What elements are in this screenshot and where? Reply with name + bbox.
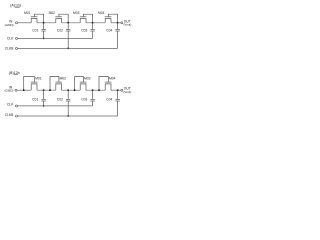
svg-text:C01: C01: [32, 28, 38, 32]
transistor M02 (panel A): [55, 14, 68, 23]
wire CLK rail (panel A): [18, 37, 93, 39]
wire: M03 to M04 (panel B): [86, 89, 105, 91]
transistor M03 (panel A): [80, 14, 93, 23]
terminal CLK circle (panel B): [16, 105, 18, 107]
wire: M04 to OUT (panel B): [111, 89, 121, 91]
figure label (A) 12a: [10, 3, 21, 7]
transistor M03 (panel B): [75, 77, 87, 91]
capacitor C02 (panel A): [66, 23, 70, 49]
svg-text:CLKB: CLKB: [5, 46, 14, 50]
svg-text:M01: M01: [24, 11, 31, 15]
wire: M03 to M04 (panel A): [86, 22, 105, 24]
node IN (panel B): [4, 85, 13, 92]
svg-text:12b: 12b: [14, 71, 20, 75]
transistor M04 (panel B): [99, 77, 111, 91]
capacitor C01 (panel B): [41, 90, 45, 106]
svg-text:CLKB: CLKB: [5, 113, 14, 117]
terminal IN circle (panel B): [15, 89, 17, 91]
transistor M02 (panel B): [50, 77, 62, 91]
terminal IN circle (panel A): [16, 22, 18, 24]
wire: M04 to OUT (panel A): [111, 22, 121, 24]
capacitor C04 (panel B): [115, 90, 119, 116]
capacitor C04 (panel A): [115, 23, 119, 49]
capacitor C02 (panel B): [66, 90, 70, 116]
junction dot C01 on CLK rail (panel A): [43, 38, 45, 40]
figure label (B) 12b: [9, 71, 20, 75]
node IN (panel A): [5, 19, 14, 27]
wire: M01 to M02 (panel B): [37, 89, 56, 91]
svg-text:M03: M03: [73, 11, 80, 15]
svg-text:(GND): (GND): [5, 23, 14, 27]
junction dot C02 on CLKB rail (panel B): [67, 115, 69, 117]
node OUT (panel B): [123, 87, 131, 94]
terminal CLKB circle (panel A): [16, 47, 18, 49]
junction dot M04 gate tap (panel B): [98, 89, 100, 91]
terminal CLK circle (panel A): [16, 37, 18, 39]
transistor M01 (panel B, gate fed back to input): [24, 77, 38, 91]
svg-text:M03: M03: [84, 77, 91, 81]
svg-text:M04: M04: [98, 11, 105, 15]
svg-text:C02: C02: [57, 28, 63, 32]
capacitor C03 (panel A): [90, 23, 94, 39]
node dot at M02 drain (panel A): [67, 22, 69, 24]
node OUT (panel A): [123, 19, 131, 26]
capacitor C03 (panel B): [90, 90, 94, 106]
wire: M01 to M02 (panel A): [37, 22, 56, 24]
node dot at M03 drain (panel B): [92, 89, 94, 91]
svg-text:C04: C04: [106, 98, 112, 102]
svg-text:(Vout): (Vout): [123, 23, 131, 27]
junction dot C02 on CLKB rail (panel A): [67, 48, 69, 50]
node dot at M04 drain (panel A): [117, 22, 119, 24]
svg-text:C03: C03: [81, 28, 87, 32]
svg-text:M04: M04: [109, 77, 116, 81]
wire CLK rail (panel B): [18, 105, 93, 107]
svg-text:(Vout): (Vout): [123, 90, 131, 94]
svg-text:C02: C02: [57, 98, 63, 102]
wire CLKB rail (panel A): [18, 47, 118, 49]
node dot at M03 drain (panel A): [92, 22, 94, 24]
wire: IN to M01 (panel B): [17, 89, 31, 91]
svg-text:M02: M02: [60, 77, 67, 81]
svg-text:CLK: CLK: [7, 103, 14, 107]
svg-text:12a: 12a: [15, 3, 21, 7]
capacitor C01 (panel A): [41, 23, 45, 39]
svg-text:C01: C01: [32, 98, 38, 102]
svg-text:C03: C03: [81, 98, 87, 102]
transistor M04 (panel A): [105, 14, 118, 23]
node dot at M04 drain (panel B): [117, 89, 119, 91]
junction dot M03 gate tap (panel B): [74, 89, 76, 91]
terminal OUT circle (panel A): [121, 22, 123, 24]
wire: IN to M01 (panel A): [18, 22, 32, 24]
svg-text:C04: C04: [106, 28, 112, 32]
svg-text:CLK: CLK: [7, 36, 14, 40]
terminal OUT circle (panel B): [121, 89, 123, 91]
svg-text:(GND): (GND): [4, 88, 13, 92]
junction dot M01 gate tap (panel B): [23, 89, 25, 91]
wire: M02 to M03 (panel A): [62, 22, 81, 24]
terminal CLKB circle (panel B): [16, 115, 18, 117]
wire: M02 to M03 (panel B): [62, 89, 81, 91]
node dot at M01 drain (panel B): [43, 89, 45, 91]
transistor M01 (panel A): [31, 14, 44, 23]
node dot at M02 drain (panel B): [67, 89, 69, 91]
junction dot M02 gate tap (panel B): [49, 89, 51, 91]
svg-text:M01: M01: [35, 77, 42, 81]
junction dot C01 on CLK rail (panel B): [43, 105, 45, 107]
wire CLKB rail (panel B): [18, 115, 118, 117]
svg-text:M02: M02: [49, 11, 56, 15]
node dot at M01 drain (panel A): [43, 22, 45, 24]
